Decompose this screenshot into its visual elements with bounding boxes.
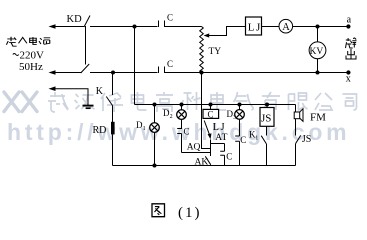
wire K to fuse RD xyxy=(112,106,114,123)
svg-text:(1): (1) xyxy=(178,205,202,221)
wire to contact K xyxy=(112,73,114,96)
terminal input PE (arrow) xyxy=(49,86,56,91)
contact K blade xyxy=(106,97,112,106)
node K branch (bottom wire) xyxy=(111,71,115,75)
wire KV branch lower xyxy=(317,59,319,73)
transformer TY wiper arrow xyxy=(204,33,210,37)
svg-text:1: 1 xyxy=(143,126,146,132)
svg-text:JS: JS xyxy=(261,113,271,125)
junction D3 top xyxy=(238,103,242,107)
svg-text:C: C xyxy=(184,127,190,137)
svg-text:K: K xyxy=(96,86,104,97)
contact C aux (self-hold) xyxy=(177,129,181,134)
svg-text:JS: JS xyxy=(302,134,311,145)
contact K1 blade xyxy=(261,136,266,144)
wire bus to lamp D3 xyxy=(239,105,241,111)
watermark logo xyxy=(4,92,37,112)
lamp D3 xyxy=(235,110,245,120)
wire control bus bottom xyxy=(113,165,296,167)
svg-text:C: C xyxy=(167,59,173,69)
svg-text:2: 2 xyxy=(170,114,173,120)
contact AK blade xyxy=(205,156,210,164)
wire A to terminal a xyxy=(293,26,351,28)
svg-text:LJ: LJ xyxy=(248,22,262,34)
contact C main pole top xyxy=(159,21,165,28)
svg-text:220V: 220V xyxy=(20,50,45,62)
svg-text:C: C xyxy=(167,13,173,23)
wire AT bar to contact C aux2 xyxy=(224,144,226,152)
wire contact C aux2 to bottom bus xyxy=(224,155,226,165)
wire phase B: contact C to terminal x xyxy=(165,72,351,74)
wire node V vertical xyxy=(210,140,212,157)
junction JS top xyxy=(265,103,269,107)
contact LJ arrow xyxy=(208,133,212,139)
svg-text:C: C xyxy=(240,135,246,145)
wire control bus top xyxy=(135,104,296,106)
wire lamp D1 to bottom bus xyxy=(154,132,156,165)
contact LJ blade xyxy=(204,121,209,135)
time relay coil JS xyxy=(260,108,274,127)
node control feed (top wire) xyxy=(133,25,137,29)
svg-text:A: A xyxy=(282,22,290,33)
svg-text:a: a xyxy=(347,15,352,26)
svg-text:KV: KV xyxy=(310,47,324,57)
wire button AQ horizontal xyxy=(182,152,211,154)
lamp D1 xyxy=(150,123,160,133)
wire JS to contact K1 xyxy=(266,126,268,135)
svg-text:KD: KD xyxy=(67,14,83,25)
watermark company name 武汉华电高科电气有限公司 xyxy=(48,92,357,112)
svg-text:FM: FM xyxy=(310,112,326,124)
junction KV top xyxy=(316,25,320,29)
contactor coil C xyxy=(203,109,219,118)
junction D1 bottom xyxy=(153,164,157,168)
wire D2 to contact C aux xyxy=(181,119,183,129)
wire PE to ground xyxy=(54,89,88,105)
wire LJ to ammeter A xyxy=(262,26,280,28)
junction D1 top xyxy=(153,103,157,107)
fuse RD xyxy=(111,122,115,135)
svg-text:C: C xyxy=(208,110,214,120)
caption 图 xyxy=(152,204,165,217)
wire transformer bottom to node V xyxy=(202,73,211,149)
svg-text:x: x xyxy=(346,74,351,85)
wire bus to lamp D2 xyxy=(181,105,183,111)
contact C aux2 xyxy=(220,151,224,155)
wire wiper to relay LJ xyxy=(209,27,246,36)
wire phase B: KD to contact C xyxy=(90,72,158,74)
wire phase A: KD to contact C xyxy=(90,26,158,28)
wire contact C to AQ row xyxy=(181,134,183,153)
wire bus to relay JS xyxy=(266,105,268,108)
wire AK to bottom bus xyxy=(210,164,212,165)
wire contact C aux3 to bottom bus xyxy=(239,141,241,165)
wire input N to switch KD xyxy=(54,72,82,74)
terminal x xyxy=(346,70,350,74)
junction transformer bottom xyxy=(200,71,204,75)
wire control feed drop xyxy=(134,27,136,105)
svg-text:50Hz: 50Hz xyxy=(19,61,43,73)
svg-text:AK: AK xyxy=(195,158,209,168)
svg-text:1: 1 xyxy=(255,135,258,141)
contact C main pole bottom xyxy=(159,67,165,74)
switch KD pole 2 blade xyxy=(81,64,90,73)
terminal input L (arrow) xyxy=(49,24,56,29)
svg-text:http://www.whhdgk.com: http://www.whhdgk.com xyxy=(7,119,350,145)
wire contact K1 to bottom bus xyxy=(266,144,268,166)
wire bus corner to buzzer FM xyxy=(295,105,297,113)
svg-text:LJ: LJ xyxy=(213,122,227,133)
ground xyxy=(83,105,94,107)
svg-text:AT: AT xyxy=(215,133,228,143)
svg-text:3: 3 xyxy=(233,115,236,121)
wire input L to switch KD xyxy=(54,26,84,28)
buzzer FM xyxy=(294,112,300,119)
lamp D2 xyxy=(177,110,187,120)
voltmeter KV xyxy=(309,42,326,59)
switch KD pole 1 blade xyxy=(84,16,90,28)
junction coil C top xyxy=(209,103,213,107)
svg-text:RD: RD xyxy=(93,125,107,136)
switch KD linkage bar xyxy=(85,26,87,65)
svg-text:AQ: AQ xyxy=(187,143,201,153)
label input 输入电源 xyxy=(6,37,50,47)
contact AT bridge bar xyxy=(211,143,225,145)
terminal input N (arrow) xyxy=(49,70,56,75)
transformer TY winding xyxy=(200,27,204,73)
wire bus to lamp D1 xyxy=(154,105,156,124)
contact JS blade xyxy=(296,135,301,143)
ammeter A xyxy=(279,19,293,33)
wire FM to contact JS xyxy=(295,119,297,136)
label ~220V xyxy=(13,54,19,56)
wire phase A: contact C to transformer TY xyxy=(165,26,202,28)
wire RD to bottom bus xyxy=(112,134,114,165)
junction D2 top xyxy=(180,103,184,107)
wire bus to coil C xyxy=(210,105,212,110)
contact C aux3 xyxy=(235,136,239,141)
wire D3 to contact C aux3 xyxy=(239,119,241,136)
terminal a xyxy=(346,24,350,28)
label output 输出 xyxy=(346,38,357,59)
relay coil LJ xyxy=(246,17,262,35)
junction KV bottom xyxy=(316,71,320,75)
wire KV branch upper xyxy=(317,27,319,43)
svg-text:TY: TY xyxy=(209,47,222,57)
wire contact JS to bottom bus xyxy=(295,144,297,166)
watermark url http://www.whhdgk.com xyxy=(7,119,350,145)
svg-text:C: C xyxy=(226,152,232,162)
